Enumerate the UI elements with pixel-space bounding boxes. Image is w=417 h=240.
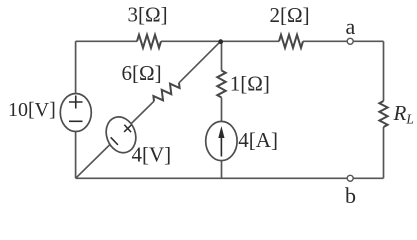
resistor R 6[ohm] zigzag on diagonal [153,83,179,101]
wire left vertical [75,41,77,178]
wire top-left segment [76,40,137,42]
svg-text:2[Ω]: 2[Ω] [270,3,310,27]
node a terminal circle [347,38,353,44]
wire diagonal upper part [179,41,221,83]
resistor R 1[ohm] zigzag [217,71,225,98]
node b terminal circle [347,175,353,181]
V2 plus sign (rotated) [124,125,131,132]
V1 minus sign [69,120,83,122]
wire diagonal lower part [76,101,154,178]
current source I1 4[A] ellipse [206,121,237,160]
wire top-right segment [303,40,384,42]
svg-text:10[V]: 10[V] [8,99,56,121]
svg-text:6[Ω]: 6[Ω] [122,61,162,85]
svg-text:a: a [346,14,356,39]
V1 plus sign [69,96,83,109]
V2 minus sign (rotated) [111,137,118,145]
wire middle vertical lower [221,98,223,179]
resistor R 3[ohm] [137,35,161,48]
svg-text:4[A]: 4[A] [238,128,278,152]
svg-text:4[V]: 4[V] [132,142,172,166]
svg-text:3[Ω]: 3[Ω] [128,3,168,27]
resistor R 2[ohm] [279,35,303,48]
wire top-middle segment [161,40,279,42]
I1 arrow up [220,130,222,157]
voltage source V1 10[V] ellipse [60,94,91,132]
resistor RL zigzag [379,101,387,127]
wire bottom [76,177,384,179]
wire middle vertical upper [221,41,223,70]
svg-text:1[Ω]: 1[Ω] [230,72,270,96]
wire right vertical bottom part [383,127,385,178]
wire right vertical top part [383,41,385,101]
voltage source V2 4[V] ellipse [101,113,140,157]
junction node dot (top middle) [218,39,223,44]
svg-text:b: b [345,183,356,208]
